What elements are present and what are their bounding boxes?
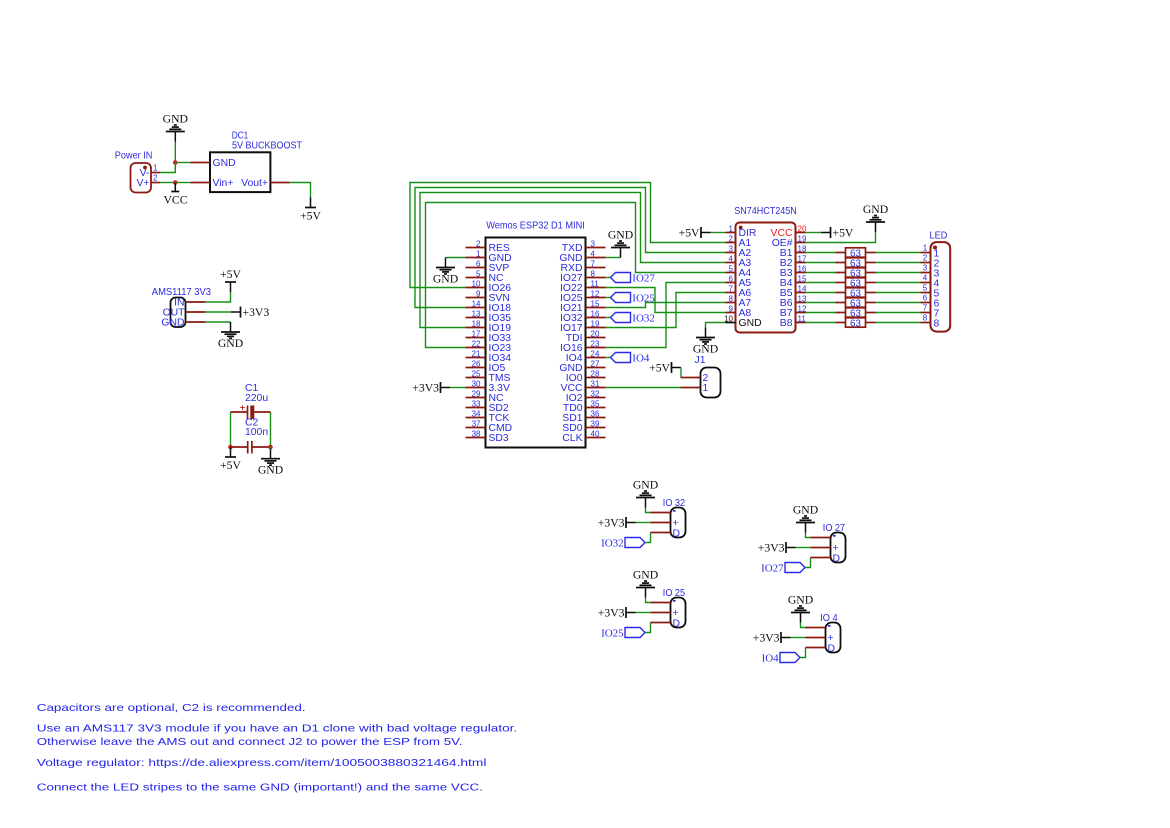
svg-text:GND: GND — [213, 158, 236, 169]
svg-text:30: 30 — [472, 379, 481, 388]
svg-text:3: 3 — [591, 239, 596, 248]
power flag GND (A1 pin1) — [433, 258, 458, 286]
svg-text:GND: GND — [608, 229, 633, 242]
svg-text:GND: GND — [693, 343, 718, 356]
svg-text:5: 5 — [923, 284, 928, 293]
wire label to IO 4 D pin — [800, 648, 806, 658]
svg-text:36: 36 — [591, 409, 600, 418]
svg-text:+5V: +5V — [220, 268, 241, 281]
svg-text:SN74HCT245N: SN74HCT245N — [734, 206, 797, 217]
junction node VCC — [173, 180, 178, 185]
svg-text:B8: B8 — [780, 318, 793, 329]
svg-text:12: 12 — [591, 289, 600, 298]
wire A1 IO32 to label — [606, 317, 611, 319]
svg-text:10: 10 — [724, 314, 733, 323]
connector IO 4 — [806, 613, 841, 655]
wire GND to IO 32 — [646, 508, 651, 513]
wire AMS GND to GND — [206, 321, 231, 323]
svg-text:IO4: IO4 — [762, 652, 780, 664]
power flag GND (U1 pin10) — [693, 328, 718, 356]
wire A1 pin4 GND — [606, 257, 621, 259]
wire A1 IO4 to label — [606, 357, 611, 359]
svg-text:6: 6 — [729, 274, 734, 283]
svg-text:Wemos ESP32 D1 MINI: Wemos ESP32 D1 MINI — [486, 221, 585, 232]
svg-text:63: 63 — [850, 318, 861, 329]
power flag GND (U1 OE#) — [863, 203, 888, 232]
svg-text:Use an AMS117 3V3 module if yo: Use an AMS117 3V3 module if you have an … — [37, 723, 517, 734]
svg-text:9: 9 — [729, 304, 734, 313]
svg-text:2: 2 — [729, 234, 734, 243]
power flag GND (A1 pin4) — [608, 229, 633, 258]
svg-text:IO 32: IO 32 — [663, 498, 685, 509]
svg-text:3: 3 — [729, 244, 734, 253]
svg-text:+3V3: +3V3 — [412, 381, 439, 394]
svg-text:13: 13 — [472, 309, 481, 318]
svg-text:11: 11 — [591, 279, 600, 288]
svg-text:IO 4: IO 4 — [820, 613, 838, 624]
power flag +5V (DC1 output) — [300, 198, 321, 223]
svg-text:+5V: +5V — [220, 459, 241, 472]
svg-text:1: 1 — [923, 244, 928, 253]
svg-text:6: 6 — [923, 294, 928, 303]
svg-text:24: 24 — [591, 349, 600, 358]
svg-text:V+: V+ — [137, 178, 150, 189]
svg-text:GND: GND — [258, 464, 283, 477]
power flag +5V (J1) — [649, 361, 681, 374]
wire +5V to DIR — [711, 232, 726, 234]
svg-text:9: 9 — [476, 289, 481, 298]
svg-text:IO 25: IO 25 — [663, 588, 685, 599]
svg-text:IO32: IO32 — [601, 537, 624, 549]
svg-text:CLK: CLK — [562, 433, 582, 444]
power flag +3V3 (AMS output) — [231, 306, 269, 319]
capacitor C1 220u — [231, 383, 271, 419]
svg-text:2: 2 — [153, 174, 158, 183]
svg-text:21: 21 — [472, 349, 481, 358]
svg-text:Otherwise leave the AMS out an: Otherwise leave the AMS out and connect … — [37, 737, 463, 748]
wire C2 right to GND — [270, 447, 272, 449]
svg-text:35: 35 — [591, 399, 600, 408]
svg-text:+5V: +5V — [833, 226, 854, 239]
svg-text:20: 20 — [591, 329, 600, 338]
svg-text:Power IN: Power IN — [115, 150, 153, 161]
wire label to IO 32 D pin — [645, 533, 651, 543]
global label IO4 (A1) — [611, 352, 650, 364]
svg-text:8: 8 — [923, 314, 928, 323]
power flag GND (below C2) — [258, 449, 283, 477]
svg-text:GND: GND — [793, 504, 818, 517]
svg-text:8: 8 — [729, 294, 734, 303]
svg-text:SD3: SD3 — [489, 433, 509, 444]
connector J1 — [681, 355, 721, 398]
wire GND to IO 25 — [646, 598, 651, 603]
svg-text:+3V3: +3V3 — [598, 516, 625, 529]
svg-text:1: 1 — [703, 383, 709, 394]
wire IO23 to A4 — [426, 203, 726, 348]
svg-text:Vout+: Vout+ — [241, 178, 268, 189]
svg-text:7: 7 — [729, 284, 734, 293]
svg-text:Capacitors are optional, C2 is: Capacitors are optional, C2 is recommend… — [37, 703, 306, 714]
global label IO27 — [761, 562, 805, 574]
svg-text:Voltage regulator: https://de.: Voltage regulator: https://de.aliexpress… — [37, 758, 487, 769]
junction node GND-DC1 — [173, 160, 178, 165]
svg-text:IO25: IO25 — [601, 627, 624, 639]
svg-text:19: 19 — [591, 319, 600, 328]
svg-text:34: 34 — [472, 409, 481, 418]
global label IO32 — [601, 537, 645, 549]
regulator module DC1 5V BUCKBOOST — [191, 131, 303, 193]
wire node to DC1 Vin+ pin — [175, 182, 190, 184]
wire label to IO 27 D pin — [805, 558, 811, 568]
svg-text:7: 7 — [591, 259, 596, 268]
svg-text:+3V3: +3V3 — [243, 306, 270, 319]
svg-text:D: D — [833, 553, 841, 564]
connector IO 27 — [811, 523, 846, 565]
svg-text:GND: GND — [433, 273, 458, 286]
svg-text:1: 1 — [729, 224, 734, 233]
power flag GND (IO 27) — [793, 504, 818, 533]
power flag GND (top left) — [163, 113, 188, 142]
svg-text:GND: GND — [163, 113, 188, 126]
svg-text:23: 23 — [591, 339, 600, 348]
svg-text:29: 29 — [472, 389, 481, 398]
connector Power IN — [115, 150, 160, 192]
svg-text:5: 5 — [729, 264, 734, 273]
wire A1 VCC to J1 pin1 — [606, 387, 681, 389]
global label IO25 (A1) — [611, 292, 656, 304]
power flag +3V3 (IO 25) — [598, 606, 636, 619]
power flag +3V3 (A1 3.3V pin) — [412, 381, 450, 394]
power flag +5V (U1 VCC) — [821, 226, 854, 239]
power flag +3V3 (IO 32) — [598, 516, 636, 529]
svg-text:IO 27: IO 27 — [823, 523, 845, 534]
svg-text:8: 8 — [934, 318, 940, 329]
wire +5V to AMS IN — [206, 292, 231, 302]
svg-text:100n: 100n — [245, 427, 268, 438]
wire A1 pin1 GND — [446, 257, 466, 259]
wire +3V3 to IO 25 — [636, 612, 651, 614]
junction node +5V (C2 left) — [228, 445, 233, 450]
svg-text:27: 27 — [591, 359, 600, 368]
A1 left pins — [466, 239, 513, 444]
svg-text:LED: LED — [930, 231, 948, 242]
svg-text:31: 31 — [591, 379, 600, 388]
wire VCC pin20 to +5V — [806, 232, 822, 234]
wire PowerIN pin1 to GND node — [160, 163, 175, 173]
wire IO19 to A3 — [420, 193, 726, 328]
svg-text:39: 39 — [591, 419, 600, 428]
wire +3V3 to A1 pin30 — [450, 387, 466, 389]
svg-text:+5V: +5V — [300, 209, 321, 222]
wire IO16 to A5 — [606, 283, 726, 348]
svg-text:D: D — [828, 643, 836, 654]
svg-text:GND: GND — [739, 318, 762, 329]
power flag GND (IO 32) — [633, 479, 658, 508]
svg-text:+5V: +5V — [679, 226, 700, 239]
svg-text:Vin+: Vin+ — [213, 178, 234, 189]
connector LED (8-pin) — [921, 231, 951, 332]
svg-text:1: 1 — [476, 249, 481, 258]
global label IO4 — [762, 652, 800, 664]
wire node to DC1 GND pin — [175, 162, 190, 164]
power flag +3V3 (IO 4) — [753, 631, 791, 644]
connector IO 32 — [651, 498, 686, 540]
regulator AMS1117 3V3 — [152, 287, 211, 329]
svg-text:D: D — [673, 618, 681, 629]
wire GND to node — [174, 142, 176, 163]
wire PowerIN pin2 to VCC node — [160, 182, 175, 184]
svg-text:+5V: +5V — [649, 361, 670, 374]
power flag GND (AMS) — [218, 322, 243, 350]
wire U1 GND pin10 — [706, 323, 726, 328]
power flag +5V (below C2) — [220, 447, 241, 472]
wire A1 IO27 to label — [606, 277, 611, 279]
svg-text:IO32: IO32 — [632, 312, 655, 324]
wire A1 IO25 to label — [606, 297, 611, 299]
svg-text:5: 5 — [476, 269, 481, 278]
svg-text:+3V3: +3V3 — [753, 631, 780, 644]
svg-text:GND: GND — [218, 337, 243, 350]
svg-text:6: 6 — [476, 259, 481, 268]
svg-text:4: 4 — [729, 254, 734, 263]
wire OE# to GND — [806, 232, 876, 243]
svg-text:28: 28 — [591, 369, 600, 378]
svg-text:IO27: IO27 — [761, 562, 784, 574]
svg-text:15: 15 — [591, 299, 600, 308]
svg-text:26: 26 — [472, 359, 481, 368]
svg-text:GND: GND — [633, 569, 658, 582]
U1 left pins — [724, 224, 762, 329]
global label IO32 (A1) — [611, 312, 655, 324]
svg-text:7: 7 — [923, 304, 928, 313]
svg-text:AMS1117 3V3: AMS1117 3V3 — [152, 287, 211, 298]
svg-text:25: 25 — [472, 369, 481, 378]
global label IO25 — [601, 627, 645, 639]
svg-text:38: 38 — [472, 429, 481, 438]
power flag GND (IO 4) — [788, 594, 813, 623]
global label IO27 (A1) — [611, 272, 656, 284]
wire +5V rail (C1 left) — [230, 412, 232, 447]
svg-text:GND: GND — [633, 479, 658, 492]
notes text block — [37, 703, 517, 794]
svg-text:11: 11 — [798, 314, 807, 323]
wire label to IO 25 D pin — [645, 623, 651, 633]
wire DC1 Vout+ to +5V — [290, 183, 311, 198]
power flag +3V3 (IO 27) — [758, 541, 796, 554]
wire GND to IO 27 — [806, 533, 811, 538]
svg-text:16: 16 — [591, 309, 600, 318]
svg-text:2: 2 — [923, 254, 928, 263]
wire +3V3 to IO 32 — [636, 522, 651, 524]
wire IO18 to A2 — [415, 188, 726, 308]
svg-text:18: 18 — [472, 319, 481, 328]
A1 right pins — [559, 239, 605, 444]
svg-text:GND: GND — [788, 594, 813, 607]
wire +5V to J1 pin2 — [680, 368, 682, 378]
power flag +5V (AMS input) — [220, 268, 241, 292]
svg-text:VCC: VCC — [163, 194, 187, 207]
wire IO17 to A6 — [606, 293, 726, 328]
svg-text:D: D — [673, 528, 681, 539]
wire IO26 to A1 — [410, 183, 726, 288]
svg-text:220u: 220u — [245, 393, 268, 404]
svg-text:1: 1 — [153, 164, 158, 173]
svg-text:8: 8 — [591, 269, 596, 278]
svg-text:5V BUCKBOOST: 5V BUCKBOOST — [232, 140, 303, 151]
wire IO22 to A8 — [606, 288, 726, 313]
svg-text:3: 3 — [923, 264, 928, 273]
svg-text:32: 32 — [591, 389, 600, 398]
wire AMS OUT to +3V3 — [206, 311, 232, 313]
svg-text:GND: GND — [161, 318, 184, 329]
svg-text:+3V3: +3V3 — [758, 541, 785, 554]
wires U1 B1-B8 to resistors to LED — [806, 253, 921, 323]
svg-text:10: 10 — [472, 279, 481, 288]
power flag VCC — [163, 183, 187, 207]
buffer U1 SN74HCT245N — [734, 206, 797, 333]
svg-text:J1: J1 — [695, 355, 706, 366]
power flag +5V (U1 DIR) — [679, 226, 711, 239]
svg-text:14: 14 — [472, 299, 481, 308]
svg-text:2: 2 — [476, 239, 481, 248]
svg-text:IO27: IO27 — [632, 272, 655, 284]
svg-text:37: 37 — [472, 419, 481, 428]
capacitor C2 100n — [231, 418, 271, 454]
svg-text:GND: GND — [863, 203, 888, 216]
svg-text:40: 40 — [591, 429, 600, 438]
svg-text:17: 17 — [472, 329, 481, 338]
wire GND to IO 4 — [801, 623, 806, 628]
wire GND rail (C1 right) — [270, 412, 272, 447]
junction node GND (C2 right) — [268, 445, 273, 450]
svg-text:4: 4 — [923, 274, 928, 283]
svg-text:22: 22 — [472, 339, 481, 348]
wire +3V3 to IO 4 — [791, 637, 806, 639]
svg-text:+3V3: +3V3 — [598, 606, 625, 619]
svg-text:33: 33 — [472, 399, 481, 408]
resistor network R1-R8 63R — [836, 248, 876, 329]
power flag GND (IO 25) — [633, 569, 658, 598]
U1 right pins — [771, 224, 807, 329]
module A1 Wemos ESP32 D1 MINI — [486, 221, 586, 448]
connector IO 25 — [651, 588, 686, 630]
svg-text:IO4: IO4 — [632, 352, 650, 364]
svg-text:Connect the LED stripes to the: Connect the LED stripes to the same GND … — [37, 783, 483, 794]
wire +3V3 to IO 27 — [796, 547, 811, 549]
wire IO21 to A7 — [606, 303, 726, 308]
svg-text:4: 4 — [591, 249, 596, 258]
